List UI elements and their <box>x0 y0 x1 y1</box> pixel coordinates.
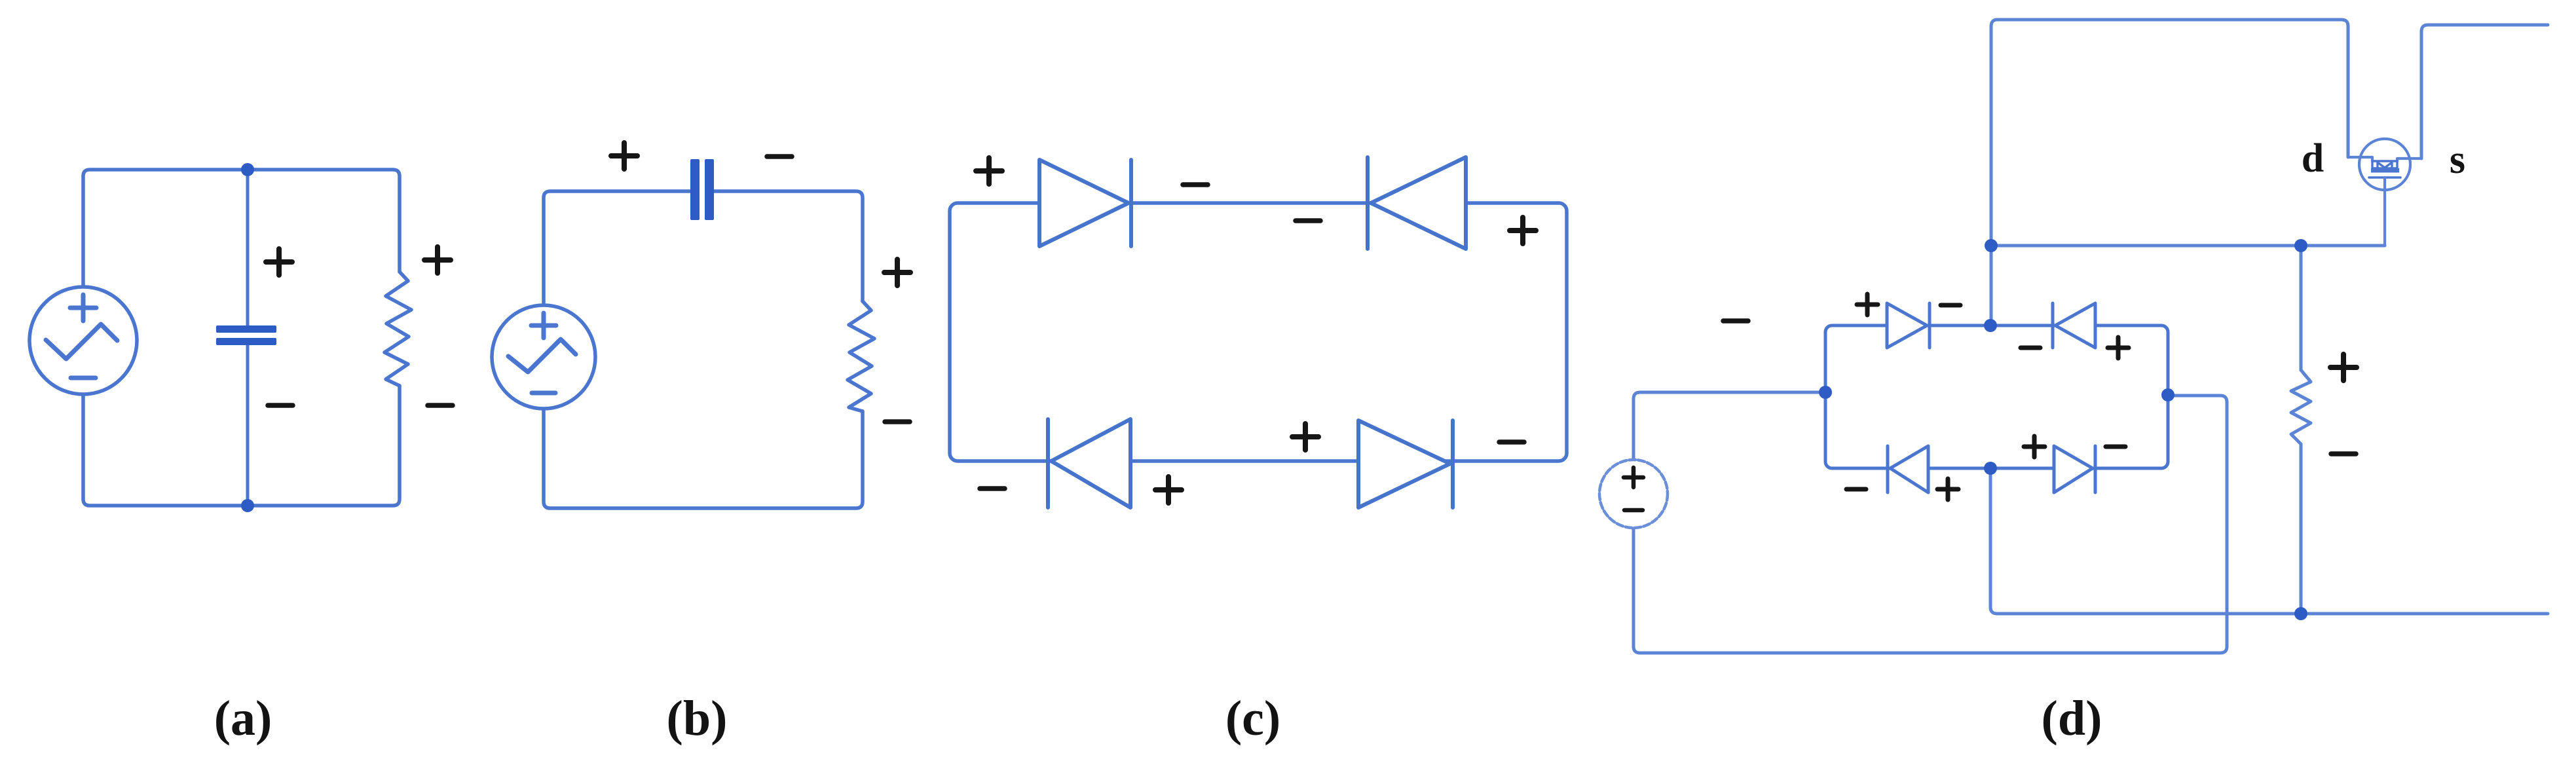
svg-text:(c): (c) <box>1225 691 1280 746</box>
bridge loop (d) <box>1825 325 2168 468</box>
label - D2 <box>1296 220 1320 221</box>
wire loop a <box>83 170 400 506</box>
label - resistor b <box>885 421 910 422</box>
DC source Vs (d) <box>1599 460 1668 528</box>
wire resistor branch upper <box>2300 246 2303 370</box>
label + D4 <box>1292 424 1318 450</box>
wire capacitor branch upper <box>246 170 250 325</box>
capacitor C (a) <box>216 325 276 345</box>
svg-text:d: d <box>2302 136 2324 181</box>
bridge diode BD4 bottom-right <box>2054 446 2095 492</box>
wire bridge bottom out <box>1990 468 2548 614</box>
wire middle horizontal y375 <box>1991 244 2385 248</box>
svg-text:(a): (a) <box>214 691 272 746</box>
CIRCUIT C <box>950 157 1567 508</box>
wire resistor branch lower <box>2300 444 2303 614</box>
AC source Vs (a) <box>29 287 137 394</box>
capacitor C (b) <box>690 159 714 220</box>
wire capacitor branch lower <box>246 345 250 506</box>
node bottom center a <box>241 499 254 512</box>
label + D2 <box>1510 217 1536 244</box>
label - left of bridge <box>1723 320 1748 323</box>
node bottom out <box>2294 607 2307 620</box>
label - capacitor a <box>268 405 293 406</box>
bridge diode BD1 top-left <box>1887 303 1930 348</box>
label + resistor d <box>2330 354 2357 380</box>
node bridge bottom <box>1984 462 1997 475</box>
label + D1 <box>976 158 1002 184</box>
diode D1 top-left (c) <box>1039 160 1131 246</box>
label + capacitor b <box>611 143 637 169</box>
diode D2 top-right (c) <box>1368 157 1466 249</box>
node mid wire right <box>2294 239 2307 252</box>
bridge diode BD3 bottom-left <box>1888 446 1928 492</box>
node bridge right <box>2161 388 2175 401</box>
label - resistor d <box>2331 453 2356 456</box>
label + BD3 <box>1937 479 1958 500</box>
label - BD3 <box>1846 488 1866 491</box>
wire Vs top to bridge left <box>1633 392 1825 460</box>
label - BD1 <box>1941 304 1960 307</box>
label - resistor a <box>428 405 453 406</box>
label - D1 <box>1183 184 1208 185</box>
svg-text:s: s <box>2450 138 2465 182</box>
label - BD2 <box>2021 346 2040 350</box>
resistor R (d) <box>2291 370 2311 444</box>
resistor R (a) <box>384 272 411 386</box>
label - D3 <box>980 488 1005 489</box>
node top center a <box>241 163 254 176</box>
node bridge left <box>1819 386 1832 399</box>
label + resistor b <box>884 259 910 286</box>
CIRCUIT A <box>29 163 453 512</box>
node mid wire left <box>1985 239 1998 252</box>
label - D4 <box>1499 441 1524 443</box>
MOSFET Q1 <box>2348 139 2421 246</box>
AC source Vs (b) <box>492 305 595 409</box>
diode D3 bottom-left (c) <box>1048 419 1130 508</box>
label + D3 <box>1155 477 1182 503</box>
CIRCUIT B <box>492 143 910 508</box>
node bridge top <box>1984 319 1997 332</box>
label + resistor a <box>424 247 451 273</box>
wire top-left to MOSFET drain <box>1991 20 2348 324</box>
wire loop b <box>544 191 863 508</box>
wire Vs bottom loop to bridge right <box>1633 396 2227 653</box>
diode D4 bottom-right (c) <box>1358 420 1453 508</box>
label + BD1 <box>1857 294 1878 315</box>
bridge diode BD2 top-right <box>2053 303 2095 348</box>
label - BD4 <box>2106 445 2125 449</box>
svg-text:(b): (b) <box>667 691 728 746</box>
label + BD2 <box>2108 337 2129 358</box>
svg-text:(d): (d) <box>2042 691 2102 746</box>
label + capacitor a <box>266 249 292 275</box>
label + BD4 <box>2024 436 2045 457</box>
wire loop c <box>950 203 1567 461</box>
resistor R (b) <box>848 301 874 411</box>
wire MOSFET source to top-right <box>2421 25 2548 158</box>
label - capacitor b <box>767 156 792 157</box>
CIRCUIT D <box>1599 20 2548 653</box>
